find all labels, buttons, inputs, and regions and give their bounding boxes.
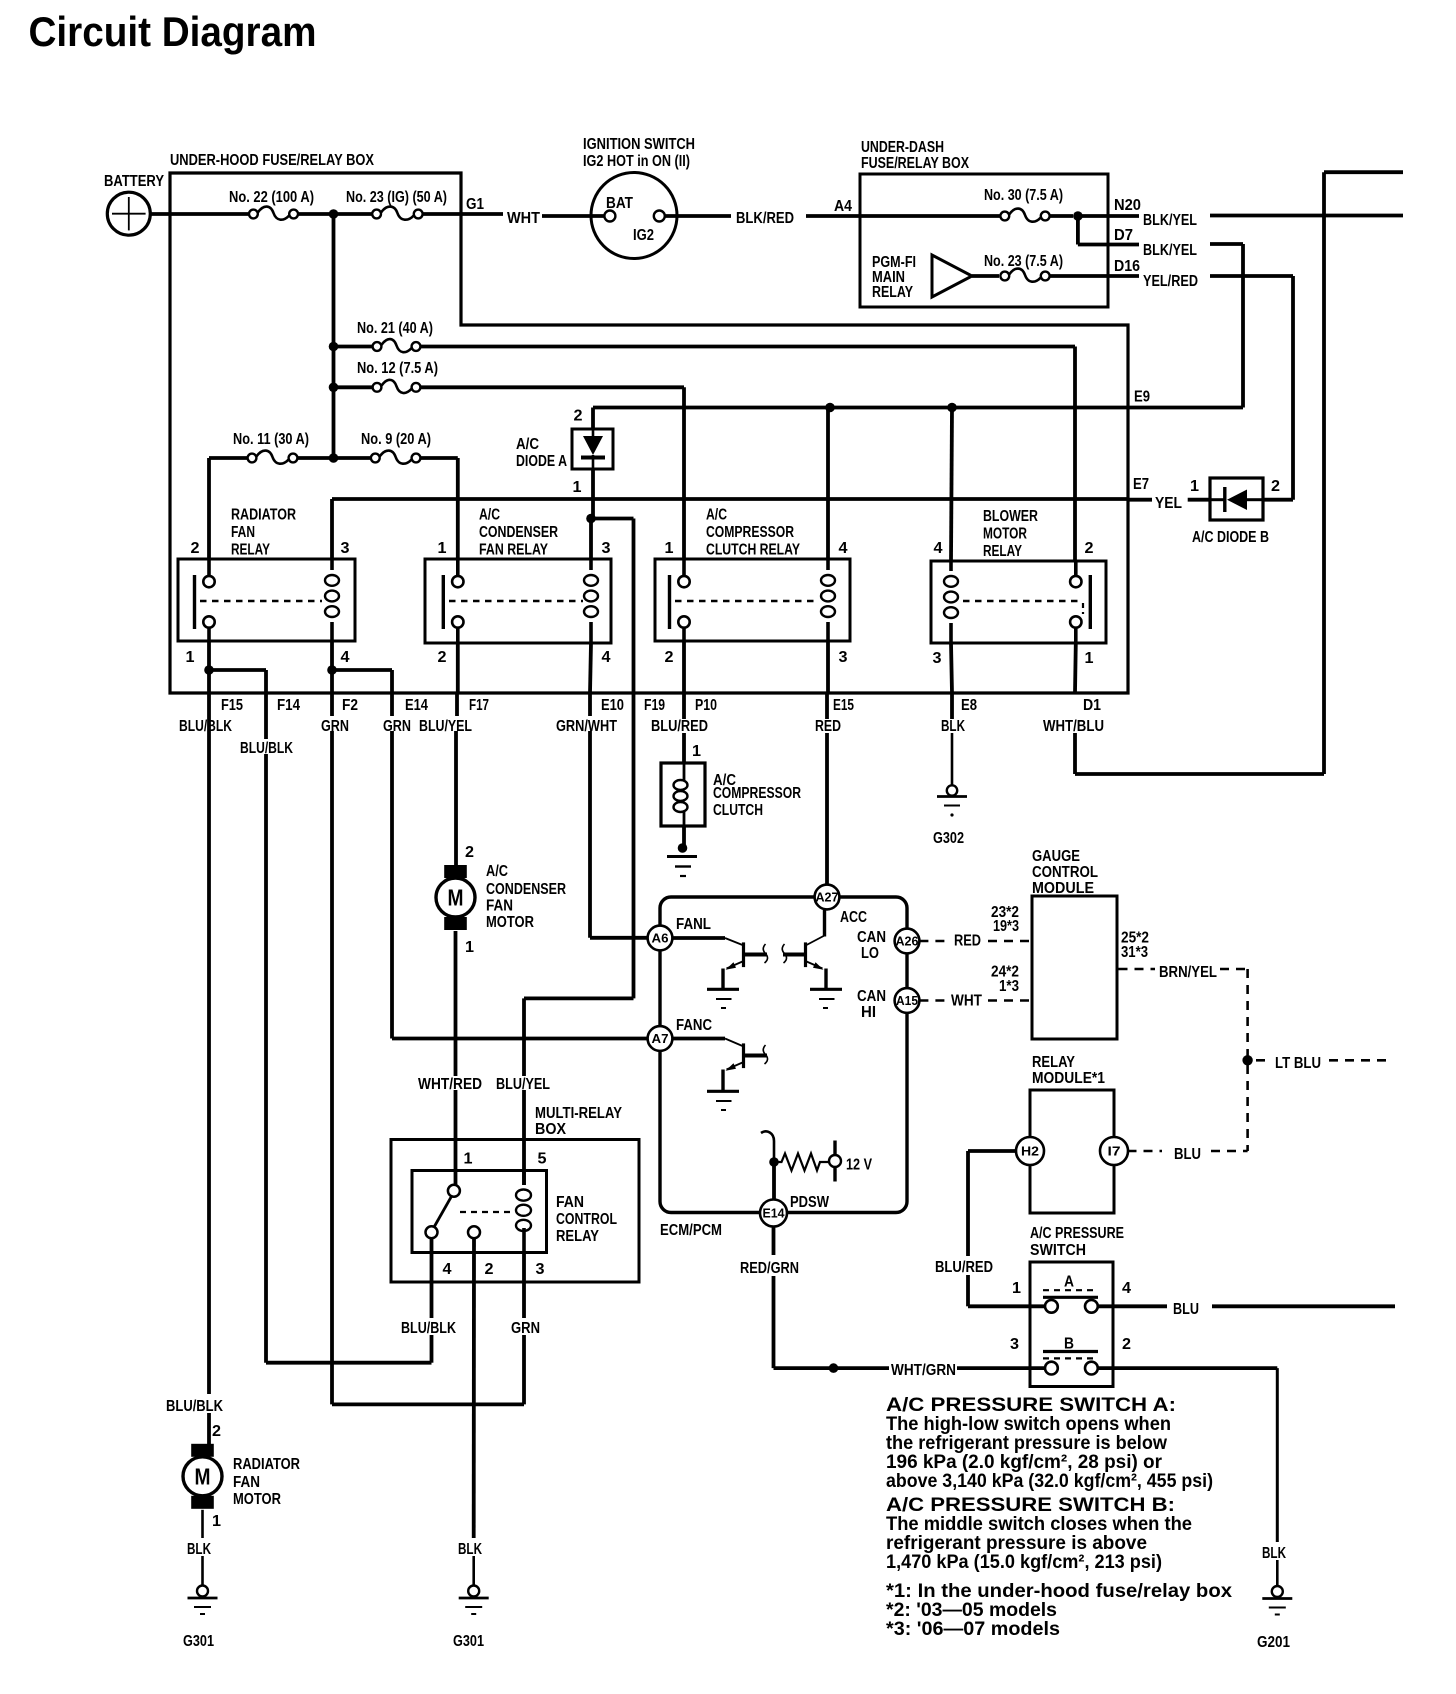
svg-text:1: 1 [438, 540, 447, 557]
svg-text:E10: E10 [601, 697, 624, 714]
svg-text:BLK: BLK [187, 1541, 211, 1558]
svg-text:BLU/BLK: BLU/BLK [179, 718, 232, 735]
svg-text:4: 4 [839, 540, 848, 557]
svg-text:2: 2 [1085, 540, 1094, 557]
svg-text:M: M [448, 885, 464, 911]
svg-text:2: 2 [438, 649, 447, 666]
svg-text:1,470 kPa (15.0 kgf/cm², 213 p: 1,470 kPa (15.0 kgf/cm², 213 psi) [886, 1551, 1162, 1573]
svg-text:A27: A27 [816, 890, 839, 905]
svg-text:CONTROL: CONTROL [1032, 864, 1098, 881]
svg-text:IG2: IG2 [633, 227, 654, 244]
svg-text:B: B [1064, 1335, 1074, 1352]
svg-text:4: 4 [934, 540, 943, 557]
svg-text:G302: G302 [933, 830, 964, 847]
svg-text:GRN: GRN [511, 1320, 540, 1337]
svg-text:D7: D7 [1114, 227, 1133, 244]
svg-text:RELAY: RELAY [983, 543, 1022, 560]
svg-text:E14: E14 [405, 697, 428, 714]
svg-text:19*3: 19*3 [993, 918, 1019, 935]
svg-text:RED: RED [815, 718, 841, 735]
svg-text:RED: RED [954, 933, 981, 950]
svg-text:4: 4 [1122, 1280, 1131, 1297]
svg-text:1: 1 [464, 1151, 473, 1168]
svg-text:Circuit Diagram: Circuit Diagram [29, 8, 317, 55]
svg-text:WHT/BLU: WHT/BLU [1043, 718, 1104, 735]
svg-text:A/C: A/C [479, 507, 500, 524]
svg-text:BLK: BLK [458, 1541, 482, 1558]
svg-text:FUSE/RELAY BOX: FUSE/RELAY BOX [861, 155, 969, 172]
svg-text:FANC: FANC [676, 1017, 712, 1034]
svg-text:MOTOR: MOTOR [486, 914, 534, 931]
svg-text:3: 3 [602, 540, 611, 557]
svg-text:D16: D16 [1114, 258, 1140, 275]
svg-text:WHT/RED: WHT/RED [418, 1076, 482, 1093]
svg-text:3: 3 [536, 1261, 545, 1278]
svg-text:No. 21 (40 A): No. 21 (40 A) [357, 320, 433, 337]
svg-text:ECM/PCM: ECM/PCM [660, 1222, 722, 1239]
svg-text:BLK/YEL: BLK/YEL [1143, 242, 1197, 259]
svg-text:above 3,140 kPa (32.0 kgf/cm²,: above 3,140 kPa (32.0 kgf/cm², 455 psi) [886, 1470, 1213, 1492]
svg-text:BLU/BLK: BLU/BLK [401, 1320, 456, 1337]
svg-text:*3: '06—07 models: *3: '06—07 models [886, 1618, 1060, 1640]
svg-text:1: 1 [665, 540, 674, 557]
svg-text:MOTOR: MOTOR [983, 526, 1027, 543]
svg-text:A/C: A/C [706, 507, 727, 524]
svg-text:I7: I7 [1108, 1144, 1121, 1159]
svg-text:A/C: A/C [516, 436, 539, 453]
svg-text:SWITCH: SWITCH [1030, 1242, 1086, 1259]
svg-text:MULTI-RELAY: MULTI-RELAY [535, 1105, 622, 1122]
svg-text:No. 23 (IG) (50 A): No. 23 (IG) (50 A) [346, 189, 447, 206]
svg-text:UNDER-HOOD FUSE/RELAY BOX: UNDER-HOOD FUSE/RELAY BOX [170, 152, 374, 169]
svg-text:CONDENSER: CONDENSER [486, 881, 566, 898]
svg-text:BATTERY: BATTERY [104, 173, 164, 190]
svg-text:BLK/RED: BLK/RED [736, 210, 794, 227]
svg-text:A26: A26 [896, 934, 919, 949]
svg-text:BLU/YEL: BLU/YEL [419, 718, 472, 735]
svg-text:RELAY: RELAY [556, 1228, 599, 1245]
svg-text:CLUTCH: CLUTCH [713, 802, 763, 819]
svg-text:No. 22 (100 A): No. 22 (100 A) [229, 189, 314, 206]
svg-text:FANL: FANL [676, 916, 711, 933]
svg-text:2: 2 [465, 844, 474, 861]
svg-text:BLU: BLU [1173, 1301, 1199, 1318]
svg-text:YEL/RED: YEL/RED [1143, 273, 1198, 290]
svg-text:12 V: 12 V [846, 1157, 872, 1174]
svg-text:CAN: CAN [857, 929, 886, 946]
svg-text:G201: G201 [1257, 1634, 1290, 1651]
svg-text:1: 1 [692, 743, 701, 760]
svg-text:GRN: GRN [383, 718, 411, 735]
svg-text:WHT/GRN: WHT/GRN [891, 1362, 956, 1379]
svg-text:BLK: BLK [1262, 1545, 1286, 1562]
svg-text:4: 4 [341, 649, 350, 666]
svg-text:LT BLU: LT BLU [1275, 1055, 1321, 1072]
svg-text:BLOWER: BLOWER [983, 508, 1038, 525]
svg-text:WHT: WHT [507, 210, 540, 227]
svg-text:G301: G301 [183, 1633, 214, 1650]
svg-text:M: M [195, 1463, 211, 1489]
svg-text:D1: D1 [1083, 697, 1101, 714]
svg-text:G1: G1 [466, 196, 484, 213]
svg-text:A4: A4 [834, 198, 852, 215]
svg-text:IG2 HOT in ON (II): IG2 HOT in ON (II) [583, 153, 690, 170]
svg-text:E8: E8 [961, 697, 977, 714]
svg-text:E15: E15 [833, 697, 854, 714]
svg-text:No. 12 (7.5 A): No. 12 (7.5 A) [357, 360, 438, 377]
svg-text:RELAY: RELAY [231, 542, 270, 559]
svg-text:BLK: BLK [941, 718, 965, 735]
svg-text:BOX: BOX [535, 1121, 566, 1138]
svg-text:CONDENSER: CONDENSER [479, 524, 558, 541]
svg-text:MODULE: MODULE [1032, 880, 1094, 897]
svg-text:1*3: 1*3 [999, 978, 1019, 995]
svg-text:ACC: ACC [840, 909, 867, 926]
svg-text:3: 3 [1010, 1336, 1019, 1353]
svg-text:GAUGE: GAUGE [1032, 848, 1080, 865]
svg-text:1: 1 [465, 939, 474, 956]
svg-text:IGNITION SWITCH: IGNITION SWITCH [583, 136, 695, 153]
svg-text:FAN: FAN [231, 524, 255, 541]
svg-text:A6: A6 [652, 931, 669, 946]
svg-text:BLU/BLK: BLU/BLK [166, 1398, 223, 1415]
svg-text:FAN: FAN [233, 1474, 260, 1491]
svg-text:CAN: CAN [857, 988, 886, 1005]
svg-text:2: 2 [191, 540, 200, 557]
svg-text:UNDER-DASH: UNDER-DASH [861, 139, 944, 156]
svg-text:4: 4 [602, 649, 611, 666]
svg-text:LO: LO [861, 945, 879, 962]
svg-text:GRN/WHT: GRN/WHT [556, 718, 617, 735]
svg-text:2: 2 [665, 649, 674, 666]
svg-text:P10: P10 [695, 697, 717, 714]
svg-text:MODULE*1: MODULE*1 [1032, 1070, 1105, 1087]
svg-text:CLUTCH RELAY: CLUTCH RELAY [706, 542, 800, 559]
svg-text:F14: F14 [277, 697, 300, 714]
svg-text:A: A [1064, 1274, 1074, 1291]
svg-text:BRN/YEL: BRN/YEL [1159, 964, 1217, 981]
svg-text:BLU: BLU [1174, 1146, 1201, 1163]
svg-text:E9: E9 [1134, 389, 1150, 406]
svg-text:A15: A15 [896, 993, 918, 1008]
svg-text:COMPRESSOR: COMPRESSOR [713, 785, 801, 802]
svg-text:GRN: GRN [321, 718, 349, 735]
svg-text:A/C PRESSURE: A/C PRESSURE [1030, 1225, 1124, 1242]
svg-text:CONTROL: CONTROL [556, 1211, 617, 1228]
svg-text:5: 5 [538, 1151, 547, 1168]
svg-text:2: 2 [574, 408, 583, 425]
svg-text:WHT: WHT [951, 993, 982, 1010]
svg-text:MOTOR: MOTOR [233, 1491, 281, 1508]
svg-text:G301: G301 [453, 1633, 484, 1650]
svg-text:No. 11 (30 A): No. 11 (30 A) [233, 431, 309, 448]
svg-text:PDSW: PDSW [790, 1194, 830, 1211]
svg-text:No. 23 (7.5 A): No. 23 (7.5 A) [984, 253, 1063, 270]
svg-text:4: 4 [443, 1261, 452, 1278]
svg-text:E14: E14 [763, 1206, 786, 1221]
svg-text:FAN: FAN [556, 1194, 584, 1211]
svg-text:1: 1 [1085, 650, 1094, 667]
svg-text:2: 2 [1122, 1336, 1131, 1353]
svg-text:3: 3 [839, 649, 848, 666]
svg-text:RED/GRN: RED/GRN [740, 1260, 799, 1277]
svg-text:RADIATOR: RADIATOR [231, 507, 296, 524]
svg-text:No. 9 (20 A): No. 9 (20 A) [361, 431, 431, 448]
svg-text:FAN RELAY: FAN RELAY [479, 542, 548, 559]
svg-text:A/C: A/C [486, 863, 508, 880]
svg-text:HI: HI [861, 1004, 876, 1021]
svg-text:E7: E7 [1133, 476, 1149, 493]
svg-text:1: 1 [573, 479, 582, 496]
svg-text:YEL: YEL [1155, 495, 1182, 512]
svg-text:COMPRESSOR: COMPRESSOR [706, 524, 794, 541]
svg-text:2: 2 [485, 1261, 494, 1278]
svg-text:1: 1 [186, 649, 195, 666]
svg-text:1: 1 [212, 1513, 221, 1530]
svg-text:No. 30 (7.5 A): No. 30 (7.5 A) [984, 187, 1063, 204]
svg-text:RELAY: RELAY [1032, 1054, 1075, 1071]
svg-text:BLK/YEL: BLK/YEL [1143, 212, 1197, 229]
svg-text:31*3: 31*3 [1121, 944, 1148, 961]
svg-text:F2: F2 [342, 697, 358, 714]
svg-text:2: 2 [212, 1423, 221, 1440]
svg-text:F19: F19 [644, 697, 665, 714]
svg-text:DIODE A: DIODE A [516, 453, 567, 470]
svg-text:BAT: BAT [606, 195, 633, 212]
svg-text:RELAY: RELAY [872, 284, 913, 301]
svg-text:A/C DIODE B: A/C DIODE B [1192, 529, 1269, 546]
svg-text:BLU/RED: BLU/RED [651, 718, 708, 735]
svg-text:1: 1 [1190, 478, 1199, 495]
svg-text:F15: F15 [221, 697, 243, 714]
svg-text:RADIATOR: RADIATOR [233, 1456, 300, 1473]
svg-text:BLU/RED: BLU/RED [935, 1259, 993, 1276]
svg-text:F17: F17 [469, 697, 489, 714]
svg-text:1: 1 [1012, 1280, 1021, 1297]
svg-text:FAN: FAN [486, 898, 513, 915]
svg-text:A7: A7 [652, 1031, 669, 1046]
svg-text:N20: N20 [1114, 197, 1141, 214]
svg-text:2: 2 [1271, 478, 1280, 495]
svg-text:H2: H2 [1021, 1144, 1039, 1159]
svg-text:3: 3 [341, 540, 350, 557]
svg-text:3: 3 [933, 650, 942, 667]
